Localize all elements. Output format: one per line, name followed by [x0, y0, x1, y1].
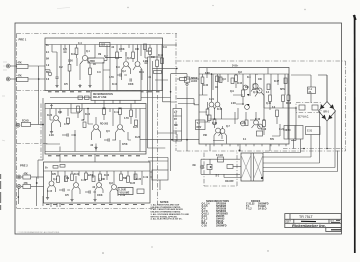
wires PRE2 to connector: [150, 171, 152, 173]
svg-text:56K: 56K: [123, 178, 128, 180]
input network resistor R23: [180, 78, 187, 81]
wire joining PRE2 jacks: [36, 177, 38, 187]
svg-text:C-31: C-31: [307, 131, 313, 133]
Q7 leads: [48, 180, 56, 196]
wire drop e: [119, 91, 121, 104]
svg-text:VOLUME: VOLUME: [120, 193, 130, 195]
power supply dash-dot line: [283, 148, 346, 150]
svg-text:47K: 47K: [52, 173, 57, 176]
svg-text:C-21: C-21: [209, 99, 215, 101]
resistor R10: [154, 71, 162, 74]
wire drop a: [94, 91, 96, 104]
junction dots reverb: [87, 108, 89, 110]
pin circle under R50: [186, 83, 188, 85]
reverb rail: [45, 108, 146, 110]
wire drop d: [112, 91, 114, 104]
PRE2 out connector box: [152, 170, 168, 180]
input jack J4: [17, 185, 21, 189]
svg-text:SPS: SPS: [280, 89, 285, 91]
wire y103.5 stub: [178, 103, 195, 105]
svg-text:47K: 47K: [24, 182, 29, 185]
resistor R6: [116, 52, 119, 59]
long verticals PRE1: [70, 45, 163, 91]
preamp chassis dashed enclosure: [17, 34, 178, 209]
svg-text:C-18: C-18: [120, 195, 126, 197]
ground stub R5: [88, 84, 91, 88]
supply wire L5: [263, 151, 338, 172]
cap C30 parts: [287, 126, 289, 140]
ground stub Q1: [78, 84, 81, 88]
Q2 leads: [122, 52, 131, 80]
resistor R2 at J2: [17, 77, 29, 81]
svg-text:6.8K: 6.8K: [205, 73, 210, 75]
small box right in PRE2: [137, 189, 144, 194]
wire drop b: [99, 91, 101, 98]
plug box dot: [210, 166, 212, 168]
mix bus wire A: [148, 57, 166, 148]
resistor R22: [127, 176, 130, 183]
scan specks below frame: [102, 246, 268, 253]
svg-text:R-14: R-14: [158, 54, 164, 57]
resistor R8: [149, 48, 152, 55]
bias diode D1: [246, 94, 251, 96]
power amp bottom drops: [210, 144, 270, 151]
footswitch jack box: [173, 109, 182, 142]
svg-text:F-3 2A: F-3 2A: [216, 154, 223, 157]
svg-text:220K: 220K: [119, 49, 125, 51]
svg-text:4.7K: 4.7K: [124, 117, 129, 120]
junction dot x172: [171, 139, 173, 141]
wire vertical PRE1 b: [109, 45, 111, 91]
svg-text:BR-1: BR-1: [324, 111, 330, 113]
small box PRE1 x145: [144, 44, 147, 50]
wire step to connector: [148, 158, 168, 171]
resistor R28: [213, 119, 216, 125]
svg-text:C-15: C-15: [47, 191, 53, 193]
Q9 leads: [95, 178, 103, 198]
svg-text:R-40: R-40: [203, 84, 209, 87]
wire to speaker resistor: [171, 74, 187, 77]
echo send jack small boxes: [78, 96, 83, 99]
Q10pre leads: [110, 184, 118, 203]
sheet border frame: [15, 23, 342, 234]
svg-text:DRV: DRV: [197, 127, 202, 129]
svg-text:© 1970 RICKENBACKER INC. ALL R: © 1970 RICKENBACKER INC. ALL RIGHTS RES.: [18, 231, 61, 234]
svg-text:LOUD: LOUD: [120, 190, 127, 192]
wire AC riser: [326, 75, 328, 102]
feedback bus PRE1: [105, 57, 122, 59]
wire vertical fuse feed: [310, 75, 312, 87]
transistor Q7: [49, 181, 54, 186]
wire vertical PRE1 a: [60, 45, 62, 91]
wire top net PRE1: [94, 45, 96, 59]
wire jack J4 drop: [17, 188, 19, 204]
capacitor C7: [62, 188, 64, 191]
bridge rectifier BR1 diamond: [319, 102, 336, 122]
svg-text:2A: 2A: [309, 91, 312, 94]
wire cap drops: [293, 139, 295, 149]
capacitor C3: [119, 73, 121, 76]
resistor R15 at J3: [23, 175, 31, 179]
fuse F1 label box: [308, 87, 316, 94]
speaker jack J5: [200, 165, 204, 169]
transformer winding diagonals: [241, 155, 263, 179]
ground stub C1: [55, 84, 58, 88]
loudness label box: [118, 188, 133, 195]
svg-text:47K: 47K: [63, 48, 68, 51]
wire mix join down: [36, 187, 38, 207]
svg-text:.022: .022: [101, 45, 106, 47]
speaker plug box: [207, 164, 212, 169]
title row1 left tick: [289, 214, 291, 220]
svg-text:F-1,2: F-1,2: [246, 208, 252, 211]
svg-text:50V: 50V: [270, 139, 275, 141]
svg-text:10K: 10K: [58, 112, 63, 114]
svg-text:R-26: R-26: [135, 137, 141, 139]
svg-text:R-22: R-22: [85, 114, 91, 116]
wire vertical PRE1 c: [161, 45, 163, 57]
transistor Q3: [135, 62, 140, 67]
echo jack box: [22, 122, 31, 126]
wire reverb verticals: [60, 109, 140, 152]
bridge left lead: [319, 111, 321, 163]
signature stroke: [301, 220, 316, 222]
PRE2 small boxes: [65, 176, 68, 182]
transistor Q11 diff pair: [215, 102, 220, 107]
resistor R14: [130, 110, 133, 117]
Q4 leads: [52, 109, 61, 131]
resistor R12: [103, 108, 106, 115]
svg-text:100K: 100K: [128, 84, 134, 86]
resistor R16 at J4: [23, 185, 31, 189]
resistor R17: [57, 176, 60, 183]
scan specks above frame: [57, 5, 306, 10]
svg-text:Rickenbacker Inc.: Rickenbacker Inc.: [292, 223, 326, 228]
svg-text:ECHO: ECHO: [22, 121, 29, 123]
transistor Q12: [243, 85, 248, 90]
power amp mid wires: [199, 95, 256, 141]
transformer core lines: [250, 153, 252, 181]
wire y68 with dot: [153, 67, 177, 69]
wire vertical x43: [42, 98, 44, 160]
transistor Q8: [74, 183, 79, 188]
scan shadow line at right edge: [354, 15, 356, 253]
svg-text:4.7K: 4.7K: [109, 76, 114, 79]
resistor R26: [235, 75, 238, 82]
bridge bottom lead: [326, 121, 328, 149]
resistor R13: [119, 108, 122, 115]
transistor Q13: [245, 105, 250, 110]
svg-text:470K: 470K: [122, 143, 128, 146]
wire node at dashed boundary: [171, 74, 177, 171]
svg-text:PRE 2: PRE 2: [20, 163, 28, 167]
wire crossing to power amp: [140, 139, 199, 141]
capacitor C8: [88, 190, 90, 193]
input jack J3: [17, 175, 21, 179]
resistor R19: [85, 173, 88, 180]
resistor R21: [120, 174, 123, 181]
extra wires PRE1: [52, 45, 168, 81]
svg-text:100K: 100K: [97, 195, 103, 197]
resistor R29 emitter: [269, 95, 272, 102]
wire echo jack to bus: [31, 124, 44, 126]
transistor Q2: [124, 62, 129, 67]
Q8 leads: [72, 176, 80, 198]
transistor Q19 output low: [254, 120, 259, 125]
bridge diode 1: [320, 104, 325, 109]
wire preamp to poweramp top: [148, 56, 163, 58]
resistor R11: [77, 106, 80, 112]
resistor R31: [282, 95, 285, 102]
transistor Q6 reverb: [118, 125, 123, 130]
bridge diode 4: [328, 115, 332, 119]
svg-text:R-11: R-11: [139, 72, 145, 74]
wire PRE1 output right: [163, 44, 177, 46]
transistor Q9: [97, 183, 102, 188]
transistor Q10 diff pair: [209, 102, 214, 107]
reverberation delay line label box: [91, 91, 141, 100]
svg-text:C-12: C-12: [114, 112, 120, 114]
resistor R1 at J1: [17, 64, 29, 68]
svg-text:R-31: R-31: [74, 174, 80, 176]
internal dashed vertical partition: [157, 95, 159, 208]
wire R4: [76, 45, 78, 49]
transistor Q20 output low: [258, 124, 263, 129]
switch S1 contacts: [299, 105, 305, 110]
capacitor C9 pair: [144, 61, 147, 63]
svg-text:24 B+: 24 B+: [232, 64, 239, 67]
svg-text:47K: 47K: [18, 62, 23, 65]
PRE1 bottom rail ticks: [107, 91, 147, 93]
svg-text:R-42: R-42: [217, 108, 223, 111]
svg-text:Q-10: Q-10: [253, 92, 259, 94]
svg-text:R-35: R-35: [130, 183, 136, 185]
cap box C31: [306, 127, 321, 135]
transistor Q18 output low: [241, 121, 246, 126]
junction dot at node: [170, 91, 172, 93]
svg-text:C-19: C-19: [143, 177, 149, 179]
resistor R20: [99, 174, 102, 181]
title sub-box: [326, 228, 341, 232]
svg-text:R-44: R-44: [237, 82, 243, 85]
wire drop c: [103, 91, 105, 104]
capacitor C5 reverb: [66, 133, 68, 136]
B+ rail PRE 2: [44, 170, 151, 172]
power amp B+ rail: [199, 73, 289, 75]
PRE2 B+ stub box: [53, 166, 58, 169]
bias small box: [196, 120, 206, 130]
inner bracket box: [71, 104, 82, 114]
filter cap box C30: [284, 126, 303, 140]
fuse F3 box: [218, 157, 224, 162]
sub-box stroke: [331, 229, 341, 231]
bridge diode 2: [329, 104, 334, 109]
junction dot PRE2 jacks: [36, 182, 38, 184]
wire y98.7 into power amp: [177, 99, 199, 105]
svg-text:2.2K: 2.2K: [231, 103, 236, 105]
Q10 leads: [208, 74, 215, 114]
pot wiper arrow: [50, 105, 52, 110]
power amp rail wires: [207, 68, 285, 120]
label row under PRE1 bottom: [48, 91, 160, 93]
reverb bus ticks: [60, 140, 120, 152]
Q14 leads: [214, 133, 222, 144]
wire reverb to PRE2 drop a: [59, 154, 61, 162]
speaker feed wire down: [186, 87, 188, 152]
resistor R4: [75, 48, 78, 55]
supply wire L2: [263, 156, 311, 158]
title block outer box: [285, 214, 341, 228]
Q17 leads: [255, 93, 264, 109]
bridge diode 3: [322, 115, 326, 119]
wire pot to C2: [104, 60, 107, 62]
resistor R50 speaker feed: [184, 77, 190, 82]
mains dashed sub-box: [204, 153, 237, 187]
pot VOLUME P1: [88, 58, 104, 63]
junction dots power amp: [211, 73, 213, 75]
svg-text:R-25: R-25: [133, 127, 139, 129]
junction dot speaker feed: [186, 139, 188, 141]
ground stubs reverb: [50, 130, 53, 134]
capacitor C2 coupling: [100, 42, 111, 46]
bridge right lead: [334, 111, 336, 168]
svg-text:3500MFD: 3500MFD: [216, 225, 227, 228]
transformer dot: [261, 177, 263, 179]
Q5 leads: [92, 117, 101, 140]
Q11 leads: [215, 74, 222, 119]
svg-text:R-46: R-46: [255, 118, 261, 121]
svg-text:1M: 1M: [98, 54, 101, 56]
label row under reverb bottom: [48, 155, 140, 157]
speaker wires loop: [201, 159, 240, 174]
svg-text:PRE 1: PRE 1: [19, 38, 27, 42]
resistor R7: [132, 52, 135, 59]
transistor Q10pre: [112, 185, 117, 190]
extra power amp wires: [199, 74, 288, 136]
junction dot J4 drop: [18, 196, 20, 198]
Q1 leads: [80, 45, 90, 81]
mix bus wire B: [152, 61, 154, 190]
resistor R24: [201, 77, 204, 84]
junction dot mains: [239, 150, 241, 152]
wire drop f: [134, 91, 136, 104]
reverb small boxes: [67, 118, 70, 124]
svg-text:3.3K: 3.3K: [68, 61, 73, 63]
bias diode D2: [246, 104, 251, 106]
power amp small boxes: [216, 76, 219, 82]
footswitch inner lines: [173, 116, 182, 141]
title block divider a: [293, 219, 295, 223]
svg-text:R-33: R-33: [104, 175, 110, 177]
svg-text:15K: 15K: [203, 135, 208, 137]
input jack J1: [6, 64, 10, 68]
Q6 leads: [116, 122, 125, 140]
wire joining jacks: [38, 66, 40, 104]
dashed partition line above PRE 2: [17, 143, 49, 145]
extra reverb wires: [46, 109, 136, 145]
capacitor C1: [55, 76, 58, 78]
wire step from PRE1 corner: [163, 91, 171, 102]
label row under PRE2 bottom: [46, 204, 145, 206]
svg-text:C-30: C-30: [286, 130, 292, 132]
mains small box: [227, 165, 233, 169]
PRE2 wire verticals: [52, 171, 143, 185]
resistor R5 emitter: [89, 68, 92, 75]
bridge top lead: [326, 84, 328, 102]
mains wires: [223, 174, 225, 177]
resistor R9: [156, 60, 159, 67]
resistor R32: [263, 120, 266, 127]
svg-text:117 V.A.C.: 117 V.A.C.: [298, 115, 309, 118]
jack junction dot: [38, 78, 40, 80]
wire diff tail: [214, 114, 216, 119]
PRE2 bottom wire drops: [43, 196, 60, 207]
svg-text:REVERBERATION: REVERBERATION: [93, 93, 113, 96]
svg-text:R-12: R-12: [146, 51, 152, 53]
transistor Q5 reverb: [94, 125, 99, 130]
svg-text:10K: 10K: [135, 49, 140, 51]
supply wire L4: [263, 167, 335, 169]
svg-text:C-11: C-11: [64, 124, 70, 126]
transistor Q17 output: [257, 88, 262, 93]
svg-text:2.2K: 2.2K: [49, 135, 54, 137]
resistor R27: [242, 90, 245, 97]
title block divider b: [328, 219, 330, 223]
resistor R18: [71, 174, 74, 181]
reverb board box: [45, 104, 146, 155]
title block row line 1: [285, 218, 341, 220]
input jack J2: [6, 77, 10, 81]
svg-text:1K: 1K: [93, 64, 96, 66]
svg-text:JACK: JACK: [191, 80, 198, 83]
wire echo bus right: [141, 97, 171, 99]
scan streak left edge lower: [0, 174, 2, 210]
resistor R30: [276, 110, 279, 117]
svg-text:8Ω: 8Ω: [193, 165, 196, 167]
AC line dashed box: [296, 103, 321, 113]
svg-text:C-16: C-16: [81, 180, 87, 182]
Q19 leads: [252, 112, 261, 128]
svg-text:2A SLO: 2A SLO: [258, 208, 267, 211]
svg-text:47K: 47K: [18, 75, 23, 78]
wire reverb to PRE2 drop b: [94, 154, 96, 162]
supply wire L3: [263, 162, 320, 164]
ground stubs PRE2: [46, 196, 49, 200]
power amp board box: [199, 68, 289, 145]
echo jack at left margin: [16, 123, 20, 127]
svg-text:C-30: C-30: [202, 225, 208, 228]
PRE 2 circuit board box: [44, 162, 151, 203]
reverb bottom bus: [45, 151, 146, 153]
Q3 leads: [133, 45, 142, 81]
svg-text:DELAY LINE: DELAY LINE: [93, 96, 107, 99]
transistor Q15 driver: [220, 129, 225, 134]
title block row line 2: [285, 222, 341, 224]
svg-text:RO-263: RO-263: [100, 124, 109, 126]
wire echo bus: [50, 97, 91, 99]
dashed vertical x41: [40, 104, 42, 159]
Q20 extra box: [257, 131, 263, 136]
transistor Q16 output: [253, 83, 258, 88]
power transformer T1: [241, 153, 263, 181]
transistor Q14 driver: [216, 128, 221, 133]
wire to power amp mid: [158, 132, 178, 134]
svg-text:47K: 47K: [24, 172, 29, 175]
transistor Q1: [82, 55, 87, 60]
capacitor C6 reverb: [107, 138, 109, 141]
transistor Q4 reverb: [54, 116, 59, 121]
wire box to supply: [291, 74, 311, 76]
